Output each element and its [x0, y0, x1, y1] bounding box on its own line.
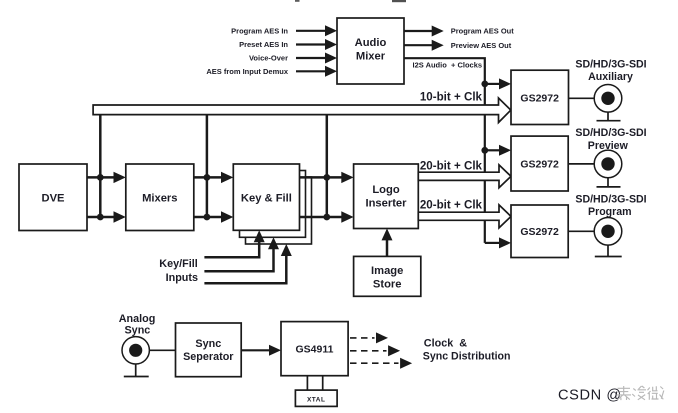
- label Clock & Sync Distribution: [423, 338, 511, 363]
- block GS2972 preview: [511, 136, 568, 191]
- wire DVE to Mixers upper: [87, 172, 126, 183]
- input Voice-Over: [249, 53, 337, 64]
- wire GS2972 program to BNC: [568, 230, 594, 232]
- svg-text:20-bit + Clk: 20-bit + Clk: [420, 198, 483, 211]
- bus 10-bit + Clk: [93, 98, 511, 123]
- label 20-bit + Clk preview: [420, 159, 483, 172]
- svg-text:Audio: Audio: [355, 37, 387, 49]
- svg-text:Key/Fill: Key/Fill: [159, 258, 197, 270]
- wire BNC to Sync Seperator: [149, 349, 175, 351]
- svg-text:Mixers: Mixers: [142, 193, 177, 205]
- svg-text:GS2972: GS2972: [520, 92, 559, 104]
- svg-text:GS4911: GS4911: [296, 343, 334, 355]
- block GS2972 auxiliary: [511, 70, 569, 124]
- block Logo Inserter: [354, 164, 419, 229]
- input AES from Input Demux: [206, 66, 337, 77]
- svg-text:Preview AES Out: Preview AES Out: [451, 41, 512, 50]
- wire audio to GS2972 program: [485, 237, 511, 248]
- wire key/fill input 2: [204, 237, 279, 271]
- svg-text:Logo: Logo: [372, 184, 400, 196]
- junction dot audio tap 1: [481, 81, 488, 88]
- watermark glyph tai: [617, 386, 632, 400]
- label 20-bit + Clk program: [420, 198, 483, 211]
- svg-text:Auxiliary: Auxiliary: [588, 71, 633, 83]
- label Analog Sync: [119, 313, 156, 337]
- block Mixers: [126, 164, 194, 231]
- label SD/HD/3G-SDI Auxiliary: [575, 59, 646, 83]
- svg-text:10-bit + Clk: 10-bit + Clk: [420, 91, 483, 104]
- wire audio to GS2972 aux: [485, 78, 511, 89]
- title remnant (cut-off descenders): [295, 0, 406, 2]
- wire XTAL pins: [307, 376, 322, 390]
- label SD/HD/3G-SDI Program: [575, 194, 646, 218]
- label Key/Fill Inputs: [159, 258, 198, 284]
- wire bus tap 3: [326, 114, 329, 217]
- wire Key & Fill to Logo Inserter upper: [300, 172, 354, 183]
- wire bus tap 1: [99, 114, 102, 217]
- wire key/fill input 1: [204, 230, 264, 257]
- svg-text:Sync: Sync: [195, 338, 221, 350]
- connector BNC preview: [594, 150, 622, 178]
- connector BNC program: [594, 218, 622, 246]
- svg-text:Program AES Out: Program AES Out: [451, 27, 515, 36]
- svg-text:Program AES In: Program AES In: [231, 27, 288, 36]
- ground BNC program: [595, 245, 622, 257]
- label SD/HD/3G-SDI Preview: [575, 127, 646, 152]
- bus 20-bit + Clk program: [418, 205, 511, 228]
- svg-text:XTAL: XTAL: [307, 397, 326, 404]
- block GS4911: [281, 322, 348, 376]
- block Image Store: [354, 256, 421, 296]
- wire key/fill input 3: [204, 244, 291, 283]
- input Program AES In: [231, 25, 337, 36]
- wire Mixers to Key & Fill upper: [194, 172, 234, 183]
- block GS2972 program: [511, 205, 568, 258]
- svg-text:Sync Distribution: Sync Distribution: [423, 351, 511, 363]
- connector BNC analog sync: [122, 337, 149, 364]
- svg-text:Clock &: Clock &: [424, 338, 467, 350]
- wire dashed clock out 3: [350, 358, 412, 369]
- watermark glyph wei: [648, 386, 664, 400]
- junction dot audio tap 2: [481, 147, 488, 154]
- svg-text:Voice-Over: Voice-Over: [249, 54, 288, 63]
- output Preview AES Out: [404, 40, 512, 51]
- watermark glyph ling: [632, 386, 646, 400]
- svg-text:CSDN @: CSDN @: [558, 387, 622, 403]
- wire Mixers to Key & Fill lower: [194, 211, 234, 222]
- wire bus tap 2: [206, 114, 209, 217]
- crystal XTAL: [295, 390, 337, 406]
- block Audio Mixer: [337, 18, 404, 84]
- wire Image Store to Logo Inserter: [382, 228, 393, 256]
- svg-text:Analog: Analog: [119, 313, 156, 325]
- svg-text:SD/HD/3G-SDI: SD/HD/3G-SDI: [575, 194, 646, 206]
- wire Key & Fill to Logo Inserter lower: [300, 211, 354, 222]
- input Preset AES In: [239, 39, 337, 50]
- wire audio to GS2972 preview: [485, 145, 511, 156]
- wire I2S Audio + Clocks net: [404, 58, 485, 243]
- svg-text:Inserter: Inserter: [365, 198, 407, 210]
- svg-text:SD/HD/3G-SDI: SD/HD/3G-SDI: [575, 127, 646, 139]
- svg-text:Image: Image: [371, 265, 403, 277]
- ground BNC preview: [597, 177, 621, 187]
- wire DVE to Mixers lower: [87, 211, 126, 222]
- svg-text:Seperator: Seperator: [183, 351, 234, 363]
- svg-text:GS2972: GS2972: [520, 226, 559, 238]
- svg-text:Key & Fill: Key & Fill: [241, 193, 292, 205]
- block Key & Fill layer 2: [240, 171, 306, 238]
- bus 20-bit + Clk preview: [418, 165, 511, 188]
- block Key & Fill layer 3: [246, 177, 312, 244]
- connector BNC auxiliary: [594, 85, 622, 113]
- svg-text:DVE: DVE: [41, 193, 65, 205]
- svg-text:Inputs: Inputs: [166, 272, 198, 284]
- ground BNC auxiliary: [597, 112, 621, 121]
- block DVE: [19, 164, 87, 231]
- ground BNC analog sync: [124, 364, 149, 377]
- output Program AES Out: [404, 26, 514, 37]
- svg-text:I2S Audio + Clocks: I2S Audio + Clocks: [413, 61, 483, 70]
- svg-text:Mixer: Mixer: [356, 51, 386, 63]
- block Key & Fill: [233, 164, 299, 230]
- wire Sync Seperator to GS4911: [241, 345, 281, 356]
- svg-text:20-bit + Clk: 20-bit + Clk: [420, 159, 483, 172]
- svg-text:Program: Program: [588, 206, 632, 218]
- svg-text:GS2972: GS2972: [520, 158, 559, 170]
- svg-text:Preset AES In: Preset AES In: [239, 40, 288, 49]
- svg-text:AES from Input Demux: AES from Input Demux: [206, 67, 289, 76]
- label 10-bit + Clk: [420, 91, 483, 104]
- wire dashed clock out 1: [350, 332, 388, 343]
- label I2S Audio + Clocks: [413, 61, 483, 70]
- wire dashed clock out 2: [350, 345, 400, 356]
- watermark CSDN: [558, 387, 622, 403]
- svg-text:SD/HD/3G-SDI: SD/HD/3G-SDI: [575, 59, 646, 71]
- wire GS2972 aux to BNC: [569, 97, 595, 99]
- block Sync Seperator: [176, 323, 242, 377]
- svg-text:Sync: Sync: [124, 325, 150, 337]
- wire GS2972 preview to BNC: [568, 163, 594, 165]
- svg-text:Store: Store: [373, 279, 402, 291]
